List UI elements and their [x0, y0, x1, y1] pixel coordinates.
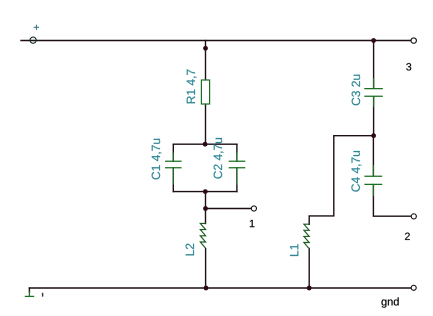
label C1 value	[152, 139, 162, 180]
wire C2 bottom lead	[236, 168, 238, 192]
inductor L2	[200, 223, 205, 248]
label gnd	[381, 297, 398, 307]
wire bottom rail	[29, 287, 411, 289]
wire L2 bottom lead	[205, 249, 207, 288]
terminal 2 (right)	[411, 214, 416, 219]
wire top rail	[21, 40, 411, 42]
node dot terminal 1 tap	[203, 206, 208, 211]
wire minus terminal drop	[28, 288, 30, 292]
resistor R1	[201, 80, 209, 104]
wire L1 top lead	[309, 136, 371, 225]
capacitor green pin stubs	[173, 78, 373, 196]
capacitor C3	[364, 89, 383, 97]
node dot cap block bottom	[203, 189, 208, 194]
node dot C3 C4 junction	[371, 133, 376, 138]
node dot R1 top	[203, 46, 208, 51]
label C3 value	[352, 75, 360, 106]
terminal + (left)	[30, 37, 36, 43]
label C2 value	[214, 138, 224, 179]
wire C1 top lead	[172, 144, 174, 161]
wire R1 top lead	[205, 41, 207, 81]
terminal 3 (top right)	[411, 38, 416, 43]
wire C3 top lead	[373, 41, 375, 89]
wire C4 top lead	[372, 136, 374, 176]
wire C2 top lead	[236, 144, 238, 161]
wire mid vertical to L2	[205, 192, 207, 224]
wire capacitor block bottom rail	[173, 191, 237, 193]
wire C3 bottom lead	[373, 97, 375, 136]
terminal gnd (bottom right)	[411, 285, 416, 290]
terminal - (bottom left)	[25, 291, 34, 296]
wire to terminal 1	[206, 208, 252, 210]
node dot top rail C3	[371, 38, 376, 43]
node dot bottom rail L1	[307, 286, 312, 291]
capacitor C4	[364, 176, 382, 184]
label 1	[250, 220, 255, 227]
label plus	[34, 25, 39, 30]
inductor L1	[304, 224, 309, 249]
capacitor C2	[229, 161, 246, 167]
label 3	[406, 63, 411, 70]
label L2	[186, 244, 194, 256]
minus label tick	[42, 293, 44, 297]
wire capacitor block top rail	[173, 143, 237, 145]
label L1	[290, 244, 298, 256]
node dot cap block top	[203, 142, 208, 147]
capacitor C1	[165, 161, 182, 167]
label C4 value	[351, 151, 361, 192]
terminal 1 (middle)	[251, 206, 256, 211]
label R1 value	[187, 70, 197, 104]
wire R1 bottom lead	[205, 104, 207, 144]
label 2	[405, 233, 410, 240]
wire C4 bottom lead to terminal 2	[373, 185, 411, 217]
wire C1 bottom lead	[172, 168, 174, 192]
node dot bottom rail L2	[204, 286, 209, 291]
wire L1 bottom lead	[308, 249, 310, 289]
